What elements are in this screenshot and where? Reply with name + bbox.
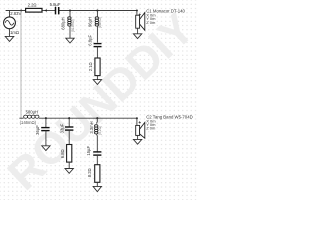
wire [45,118,47,127]
inductor 96µH [87,11,102,43]
inductor 3.3mH [89,118,102,152]
svg-text:15µF: 15µF [86,146,91,156]
svg-text:3.3mH: 3.3mH [89,121,94,133]
svg-text:2.2Ω: 2.2Ω [28,2,37,7]
wire [68,130,70,144]
svg-text:(0.2Ω): (0.2Ω) [98,126,102,135]
resistor 2.1Ω [88,58,100,76]
resistor 2.2Ω [26,2,42,12]
wire [68,118,70,127]
node corner C2 [136,117,138,119]
wire to C2 [136,118,138,125]
capacitor 6.8µF [88,34,102,46]
ground (C1) [133,34,141,39]
ground (branch2) [93,80,101,85]
node branchC [96,117,98,119]
ground (branchB) [65,169,73,174]
svg-text:6.8Ω: 6.8Ω [60,149,65,158]
generator V1 [4,11,22,37]
wire [68,162,70,168]
wire to C1 [136,11,138,16]
node branch2 [96,9,98,11]
svg-text:2.1Ω: 2.1Ω [88,62,93,71]
svg-text:6.8µF: 6.8µF [88,34,93,45]
wire arrow [44,9,47,12]
node corner C1 [136,10,138,12]
svg-text:680µH: 680µH [61,17,66,29]
watermark [0,4,204,200]
node bus tap [20,9,22,11]
svg-text:2.83V: 2.83V [10,11,21,16]
svg-text:(146mΩ): (146mΩ) [20,120,37,125]
ground (branchA) [42,146,50,151]
svg-text:Z 0m: Z 0m [146,20,156,25]
svg-text:5.8µF: 5.8µF [50,2,61,7]
speaker C2 Tang Band W5-704D [136,115,193,140]
svg-text:(86mΩ): (86mΩ) [98,17,102,28]
svg-text:(513mΩ): (513mΩ) [71,19,75,32]
capacitor 15µF [86,146,101,156]
ground (C2) [133,139,141,144]
wire top rail [6,10,137,12]
svg-text:1mΩ: 1mΩ [10,30,19,35]
resistor 8.2Ω [87,165,100,183]
wire [96,47,98,58]
svg-text:Z 0m: Z 0m [146,126,156,131]
ground (branchC) [93,186,101,191]
wire [96,76,98,80]
inductor 680µH shunt [61,11,75,39]
capacitor 36µF [35,125,50,135]
svg-text:580µH: 580µH [26,109,38,114]
node branchB [68,117,70,119]
speaker C1 Monacor DT-140 [136,9,186,34]
svg-text:36µF: 36µF [35,125,40,135]
node branch1 [69,9,71,11]
capacitor 5.8µF [50,2,61,14]
inductor 580µH (146mΩ) [20,109,39,125]
ground (branch1) [66,38,74,43]
wire bottom rail [19,117,136,119]
wire [96,155,98,165]
wire [96,182,98,186]
wire bus to woofer section [20,11,22,119]
svg-text:8.2Ω: 8.2Ω [87,168,92,177]
node branchA [45,117,47,119]
ground (generator) [5,36,14,41]
svg-text:33µF: 33µF [59,123,64,133]
svg-text:96µH: 96µH [87,17,92,27]
capacitor 33µF [59,123,73,133]
resistor 6.8Ω [60,145,72,163]
wire [45,131,47,146]
